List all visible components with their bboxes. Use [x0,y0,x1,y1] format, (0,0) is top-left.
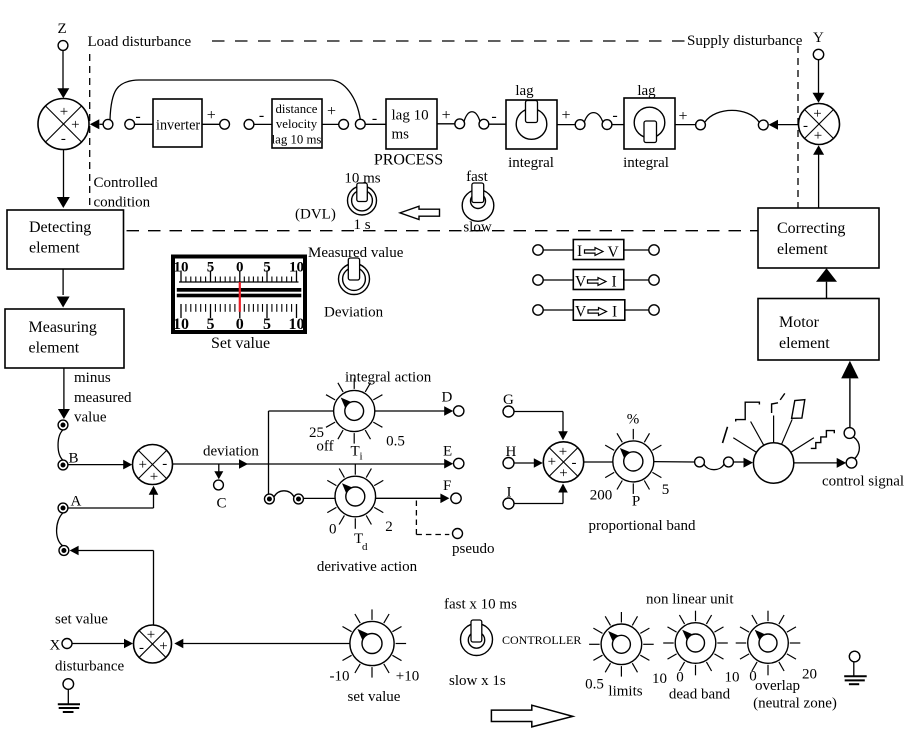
svg-text:element: element [777,241,828,258]
node chain terminal 12 [758,120,768,130]
svg-text:velocity: velocity [276,117,318,131]
wire hump arc lag10ms output to lagA input [464,112,480,122]
dashed wire F to pseudo [415,501,417,535]
wire branch down to C with arrow [218,464,220,473]
wire S2 output to node with left arrow [777,124,798,126]
svg-text:-: - [491,108,496,125]
hollow arrow pointing right [491,705,572,727]
wire deviation line to E with mid arrow [173,463,445,465]
meter set value / measured value indicator [173,257,305,333]
svg-text:integral: integral [623,155,669,171]
svg-text:-: - [803,118,808,134]
svg-text:d: d [362,541,368,553]
svg-text:E: E [443,444,452,460]
node plug B [58,460,68,470]
svg-text:value: value [74,410,107,426]
wire integral knob to D with arrow [375,410,445,412]
node chain terminal 9 [575,120,585,130]
svg-text:+: + [138,457,146,473]
svg-text:overlap: overlap [755,678,800,694]
terminal pseudo [453,529,463,539]
wire S5 to proportional knob [584,461,613,463]
wire Detecting to Measuring with arrow [62,269,64,295]
svg-text:pseudo: pseudo [452,541,495,557]
svg-text:proportional band: proportional band [588,518,696,534]
svg-text:+: + [442,107,451,124]
knob overlap [790,642,801,644]
svg-text:derivative action: derivative action [317,559,418,575]
converter I to V [533,245,543,255]
svg-text:V: V [575,274,587,291]
svg-text:5: 5 [263,316,271,333]
svg-text:-: - [259,107,264,124]
svg-text:Y: Y [813,30,824,46]
wire inverter to node [202,123,220,125]
wire G to S5 with arrow [514,411,563,413]
svg-text:P: P [632,494,640,510]
block inverter [153,99,202,147]
svg-text:-: - [61,131,66,147]
knob derivative action Td [374,480,383,485]
summing junction S3 (deviation) [133,445,173,485]
svg-text:-: - [372,110,377,127]
svg-text:-: - [572,455,577,471]
node chain terminal 7 [455,119,465,129]
svg-text:%: % [627,412,640,428]
svg-text:disturbance: disturbance [55,659,124,675]
svg-text:200: 200 [590,488,613,504]
svg-text:off: off [316,439,333,455]
svg-text:+: + [559,444,567,460]
toggle fast/slow (stick up) [462,190,494,222]
svg-text:condition: condition [94,195,151,211]
node chain terminal 5 [339,120,349,130]
svg-text:slow x 1s: slow x 1s [449,673,506,689]
wire node to lagA box [489,123,506,125]
node plug A [58,503,68,513]
waveform glyph slash [723,427,728,443]
svg-text:V: V [608,244,620,261]
svg-text:+: + [561,107,570,124]
node plug derivative right [294,494,304,504]
dashed boundary right vertical [797,46,799,208]
wire into S1 with left arrow [100,123,104,125]
svg-text:control signal: control signal [822,474,904,490]
wire S1 to Detecting element with arrow [63,150,65,198]
wire hump arc lagB output to S2 output node [705,110,759,122]
toggle switch inside lag A (stick up) [516,109,547,140]
svg-text:+: + [813,106,821,122]
toggle DVL speed (two rings, stick up) [348,186,377,215]
svg-text:I: I [577,243,582,260]
wire node to distance box [254,123,272,125]
svg-text:1 s: 1 s [353,217,370,233]
converter V to I (upper) [533,275,543,285]
node chain terminal 6 [355,119,365,129]
wire big feedback arc from node near S1 to lag10ms input [110,80,360,120]
dashed boundary top horizontal (disturbance zone) [212,40,686,42]
svg-text:minus: minus [74,370,111,386]
wire plug to derivative knob [303,497,335,499]
svg-text:2: 2 [385,519,393,535]
svg-text:deviation: deviation [203,444,259,460]
node chain terminal 2 [125,119,135,129]
node chain terminal 10 [602,120,612,130]
svg-text:10: 10 [725,670,740,686]
svg-text:Supply disturbance: Supply disturbance [687,33,803,49]
svg-text:+: + [559,466,567,482]
wire branch vertical to integral/derivative [268,411,270,494]
block distance velocity lag 10 ms [272,99,322,148]
svg-text:lag: lag [515,83,534,99]
svg-text:Correcting: Correcting [777,220,845,237]
svg-text:D: D [442,390,453,406]
svg-text:+: + [814,128,822,144]
svg-text:A: A [71,494,82,510]
knob proportional band P [652,445,661,450]
block lag integral B [624,98,675,149]
svg-text:+: + [548,454,556,470]
svg-text:+: + [147,627,155,643]
svg-text:+: + [327,103,336,120]
svg-text:0.5: 0.5 [585,677,604,693]
wire output to control signal with arrow [794,462,837,464]
node plug below measuring [58,420,68,430]
wire curve A to lower plug [57,513,64,546]
svg-text:PROCESS: PROCESS [374,152,443,169]
svg-text:Motor: Motor [779,314,820,331]
wire hump arc to derivative plug [274,491,294,497]
wire Y to summing junction S2 with arrow [818,60,820,94]
wire X to S4 with arrow [72,643,125,645]
thick arrow into Motor element [841,361,858,379]
terminal X [62,639,72,649]
terminal control signal [846,458,857,469]
block Correcting element [758,208,879,268]
svg-text:fast x 10 ms: fast x 10 ms [444,597,517,613]
svg-text:+10: +10 [396,669,419,685]
svg-text:-10: -10 [330,669,350,685]
wire B to deviation junction with arrow [68,464,124,466]
wire Z to summing junction S1 with arrow [62,50,64,96]
svg-text:0: 0 [676,670,684,686]
dashed boundary middle horizontal [127,230,758,232]
ground symbol left [63,679,74,690]
wire node to inverter [135,123,154,125]
svg-text:non linear unit: non linear unit [646,592,734,608]
svg-text:0: 0 [236,260,244,276]
svg-text:lag 10 ms: lag 10 ms [272,133,322,147]
svg-text:lag 10: lag 10 [392,108,429,124]
svg-text:C: C [217,496,227,512]
knob integral action Ti [373,395,382,400]
terminal C [214,480,224,490]
dashed boundary left vertical [89,54,91,206]
wire hump arc lagA output to lagB input [584,113,603,122]
svg-text:Controlled: Controlled [94,175,159,191]
svg-text:Measuring: Measuring [29,319,97,336]
svg-text:element: element [29,340,80,357]
svg-text:-: - [135,108,140,125]
node chain terminal 1 [103,119,113,129]
svg-text:integral: integral [508,155,554,171]
hollow arrow pointing left [400,206,440,219]
svg-text:+: + [150,469,158,485]
wire Correcting element up to S2 with arrow [813,145,824,155]
terminal I [503,498,514,509]
node chain terminal 3 [220,119,230,129]
knob dead band [717,642,728,644]
output device circle [753,443,793,483]
svg-text:limits: limits [608,684,642,700]
svg-text:+: + [60,104,68,120]
waveform glyph pulse rectangle [792,400,805,419]
node plug lower A [59,546,69,556]
svg-text:-: - [162,456,167,472]
svg-text:(DVL): (DVL) [295,207,336,223]
svg-text:i: i [360,451,363,463]
svg-text:element: element [29,240,80,257]
svg-text:+: + [207,107,216,124]
wire curve output node to control node [853,437,859,459]
wire dip arc between output nodes [704,464,724,469]
wire proportional knob to node [654,461,695,463]
svg-text:5: 5 [207,260,215,276]
svg-text:20: 20 [802,667,817,683]
svg-text:0.5: 0.5 [386,434,405,450]
wire lagA to node [557,124,575,126]
wire lag10ms to node [437,123,455,125]
node plug derivative left [265,494,275,504]
wire set-value loop to plug A with arrow [70,546,79,556]
svg-text:I: I [612,304,617,321]
block Detecting element [7,210,124,269]
svg-text:element: element [779,335,830,352]
wire node to lag10ms box [365,123,386,125]
summing junction S4 (set value) [134,625,172,663]
svg-text:Set value: Set value [211,335,270,352]
svg-text:integral action: integral action [345,370,432,386]
svg-text:-: - [612,107,617,124]
svg-text:X: X [50,638,61,654]
svg-text:I: I [612,274,617,291]
wire curve plug to B [58,430,63,461]
svg-text:set value: set value [55,612,108,628]
waveform glyph step up [736,402,760,421]
terminal E [454,458,464,468]
svg-text:Detecting: Detecting [29,219,91,236]
block lag 10 ms (PROCESS) [386,99,437,149]
svg-text:distance: distance [276,102,318,116]
node chain terminal 8 [479,119,489,129]
svg-text:+: + [678,108,687,125]
terminal G [503,406,514,417]
wire node to output stage with arrow [734,461,745,463]
svg-text:10: 10 [652,671,667,687]
wire set value knob to S4 with arrow [174,639,183,649]
wire node to lagB box [612,124,624,126]
svg-text:CONTROLLER: CONTROLLER [502,633,581,647]
svg-text:Z: Z [58,21,67,37]
wire I to S5 with arrow [514,503,563,505]
terminal Y [813,49,823,59]
svg-text:dead band: dead band [669,687,731,703]
svg-text:-: - [139,640,144,656]
svg-text:10: 10 [289,316,305,333]
terminal F [451,493,461,503]
summing junction S2 (supply disturbance) [799,104,840,145]
svg-text:5: 5 [263,260,271,276]
thick arrow Motor to Correcting [816,268,837,281]
terminal H [503,458,514,469]
block Motor element [758,299,879,361]
terminal Z [58,41,68,51]
node output hop left [695,457,705,467]
wire derivative knob to F with arrow [376,497,441,499]
node output hop right [724,457,734,467]
wire H to S5 with arrow [514,462,535,464]
knob limits [643,643,654,645]
block lag integral A [506,100,557,149]
toggle switch inside lag B (stick down) [634,107,665,138]
block Measuring element [5,309,124,368]
wire branch to integral knob [269,410,334,412]
wire distance box to node [322,123,339,125]
svg-text:F: F [443,478,451,494]
wire Measuring element down with arrow [63,368,65,410]
node chain terminal 4 [244,120,254,130]
waveform glyph ramp step [772,403,778,413]
ground symbol right [849,651,860,662]
summing junction S5 (controller input) [543,442,583,482]
svg-text:measured: measured [74,390,132,406]
wire lagB to node [675,124,696,126]
svg-text:10: 10 [289,260,304,276]
svg-text:inverter: inverter [156,118,200,134]
toggle controller speed (stick up) [461,624,493,656]
svg-text:5: 5 [662,482,670,498]
terminal output to motor [844,428,855,439]
svg-text:Deviation: Deviation [324,305,384,321]
summing junction S1 (controlled condition) [38,99,89,150]
svg-text:slow: slow [463,220,492,236]
svg-text:Load disturbance: Load disturbance [88,34,192,50]
svg-text:10: 10 [174,260,189,276]
svg-text:ms: ms [392,127,410,143]
svg-text:0: 0 [329,522,337,538]
svg-text:+: + [159,639,167,655]
svg-text:set value: set value [348,689,401,705]
svg-text:V: V [575,304,587,321]
waveform glyph staircase [811,431,835,449]
wire A to junction bottom [68,507,154,509]
converter V to I (lower) [533,305,543,315]
svg-text:lag: lag [637,83,656,99]
knob set value [396,643,407,645]
svg-text:+: + [71,117,79,133]
svg-text:T: T [351,444,360,460]
terminal D [454,406,464,416]
toggle measured value/deviation (two rings, stick up) [339,264,370,295]
node chain terminal 11 [696,120,706,130]
svg-text:5: 5 [207,316,215,333]
svg-text:10: 10 [173,316,189,333]
svg-text:0: 0 [236,316,244,333]
svg-text:(neutral zone): (neutral zone) [753,696,837,712]
